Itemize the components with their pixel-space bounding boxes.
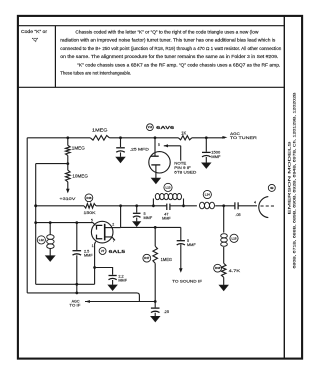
svg-text:4B: 4B bbox=[270, 186, 274, 190]
svg-text:10MEG: 10MEG bbox=[72, 174, 88, 179]
ground for .25MFD bbox=[116, 157, 125, 162]
junction dot inner bottom crossing bbox=[75, 283, 78, 286]
svg-text:MMF: MMF bbox=[84, 253, 93, 257]
capacitor .25MFD bbox=[116, 138, 149, 157]
svg-text:R48: R48 bbox=[215, 266, 221, 270]
capacitor 2.2MMF bbox=[95, 268, 128, 285]
svg-text:TO TUNER: TO TUNER bbox=[230, 135, 257, 140]
circled ref L13 bbox=[164, 183, 172, 191]
svg-text:Chassis coded with the letter: Chassis coded with the letter “K” or “Q”… bbox=[75, 30, 259, 35]
capacitor 1500MMF bbox=[202, 138, 221, 163]
ground for 5MMF row B bbox=[133, 222, 141, 227]
note text bbox=[174, 161, 196, 175]
tube 6AV6 plate bbox=[151, 155, 159, 157]
svg-text:V12: V12 bbox=[148, 126, 153, 129]
AGC TO TUNER arrow bbox=[222, 131, 257, 140]
dashed grid line (next stage) bbox=[261, 205, 277, 207]
wire bottom return bbox=[27, 293, 139, 302]
resistor 10MEG bbox=[66, 164, 88, 182]
wire mid-left vertical bbox=[35, 164, 37, 285]
circled ref L15 bbox=[230, 234, 238, 242]
svg-text:Code “K” or: Code “K” or bbox=[21, 29, 48, 34]
wire row B segment to tank bbox=[96, 205, 166, 207]
tube 6AL5 plate 2 bbox=[97, 235, 103, 239]
junction dot 5MMF tap bbox=[135, 204, 138, 207]
svg-text:5: 5 bbox=[91, 218, 93, 222]
tube 6AV6 diode plate lead bbox=[155, 138, 160, 156]
circled ref L14 bbox=[203, 190, 211, 198]
svg-text:1K: 1K bbox=[181, 131, 186, 136]
junction dot .25MFD tap bbox=[119, 136, 122, 139]
wire row B left segment bbox=[36, 205, 84, 207]
svg-text:.25: .25 bbox=[164, 309, 169, 314]
junction dot 1500MMF tap bbox=[205, 136, 208, 139]
svg-text:2: 2 bbox=[112, 223, 114, 227]
resistor 4.7K bbox=[221, 263, 240, 277]
svg-text:L15: L15 bbox=[232, 236, 237, 240]
wire row B tank to L14 bbox=[170, 205, 197, 207]
junction dot 6AV6 grid tap bbox=[154, 136, 157, 139]
svg-text:TO SOUND IF: TO SOUND IF bbox=[172, 279, 203, 284]
coil L15 bbox=[221, 206, 228, 263]
junction dot L12 top bbox=[49, 221, 52, 224]
svg-text:+310V: +310V bbox=[59, 196, 75, 201]
ground for 2.2MMF bbox=[108, 285, 117, 290]
svg-text:“Q”: “Q” bbox=[32, 37, 39, 42]
svg-text:L14: L14 bbox=[205, 193, 210, 197]
wire to next stage grid bbox=[239, 200, 258, 205]
svg-text:R46: R46 bbox=[86, 196, 92, 200]
capacitor 5MMF sound takeoff bbox=[177, 227, 197, 268]
capacitor .25 (AGC filter) bbox=[151, 308, 169, 316]
resistor 1MEG (horizontal, top row) bbox=[90, 127, 109, 140]
svg-text:MMF: MMF bbox=[162, 216, 171, 220]
circled ref R46 bbox=[85, 194, 93, 202]
rotated model list (outer) bbox=[291, 92, 296, 268]
svg-text:R47: R47 bbox=[144, 256, 150, 260]
tube V7 6AL5 label bbox=[99, 248, 125, 255]
svg-text:.05: .05 bbox=[235, 213, 240, 217]
wire junction horizontal bbox=[36, 163, 68, 165]
svg-text:1MEG: 1MEG bbox=[161, 257, 173, 262]
svg-text:.25 MFD: .25 MFD bbox=[130, 146, 149, 151]
svg-text:MMF: MMF bbox=[144, 216, 153, 220]
rotated EMERSON MODELS (inner) bbox=[286, 141, 291, 215]
coil L13 (tank) bbox=[153, 194, 183, 206]
wire top row right segment to AGC arrow bbox=[192, 137, 225, 139]
svg-text:1: 1 bbox=[92, 244, 94, 248]
svg-text:680B, 671B, 688B, 689B, 690B,: 680B, 671B, 688B, 689B, 690B, 692B, 694B… bbox=[291, 92, 296, 268]
junction dot top of 1MEG chain bbox=[66, 136, 69, 139]
junction dot 1MEG AGC tap bbox=[154, 226, 157, 229]
circled ref R48 bbox=[214, 264, 222, 272]
junction dot tank right bbox=[182, 204, 185, 207]
junction dot tank left bbox=[152, 204, 155, 207]
svg-text:“K” code chassis uses a 6BK7 a: “K” code chassis uses a 6BK7 as the RF a… bbox=[77, 62, 280, 67]
capacitor 2.5MMF bbox=[73, 223, 94, 293]
junction dot AGC node bbox=[154, 300, 157, 303]
tube 6AV6 cathode bbox=[151, 165, 160, 178]
capacitor 5MMF (row B) bbox=[133, 206, 153, 222]
wire 1MEG to junction bbox=[67, 155, 69, 163]
svg-text:6AL5: 6AL5 bbox=[109, 249, 126, 255]
tube 6AL5 envelope bbox=[91, 221, 113, 243]
wire 1MEG down to AGC node bbox=[154, 263, 156, 307]
wire row B L14 to cap bbox=[215, 205, 234, 207]
coil L12 bbox=[47, 223, 54, 256]
ground for L12 bbox=[46, 256, 55, 261]
svg-text:150K: 150K bbox=[84, 210, 96, 215]
svg-text:These tubes are not interchang: These tubes are not interchangeable. bbox=[60, 71, 131, 76]
resistor 1K bbox=[178, 131, 191, 140]
svg-text:1MEG: 1MEG bbox=[92, 127, 108, 132]
code box label bbox=[21, 29, 48, 42]
wire top row left segment bbox=[27, 137, 90, 139]
junction dot row B mid-left bbox=[34, 204, 37, 207]
svg-text:MMF: MMF bbox=[118, 279, 127, 283]
svg-text:radiation with an improved noi: radiation with an improved noise factor)… bbox=[60, 38, 276, 43]
svg-text:L12: L12 bbox=[39, 238, 44, 242]
junction dot between 1MEG and 10MEG bbox=[66, 162, 69, 165]
wire detector input row bbox=[36, 222, 93, 224]
junction dot L15 drop bbox=[222, 204, 225, 207]
wire row C bbox=[121, 226, 181, 228]
tube 6AL5 plate 1 bbox=[97, 225, 103, 229]
AGC TO IF arrow line bbox=[69, 298, 155, 307]
note arrow bbox=[164, 144, 181, 160]
svg-text:MMF: MMF bbox=[211, 154, 221, 159]
B+ 310V feed arrow bbox=[59, 182, 75, 201]
svg-text:6AV6: 6AV6 bbox=[156, 125, 174, 131]
coil L14 bbox=[200, 202, 215, 209]
text box bottom rule bbox=[18, 86, 284, 88]
svg-text:connected to the B+ 250 volt p: connected to the B+ 250 volt point (junc… bbox=[60, 46, 282, 51]
top band rule bbox=[18, 25, 284, 27]
tube 6AL5 cathode bar bbox=[104, 224, 106, 241]
circled ref L12 bbox=[37, 236, 45, 244]
ground for .25 AGC bbox=[151, 316, 160, 321]
svg-text:EMERSON MODELS: EMERSON MODELS bbox=[286, 141, 291, 215]
svg-text:5: 5 bbox=[158, 143, 160, 147]
svg-text:7: 7 bbox=[113, 239, 115, 243]
wire top row middle segment bbox=[109, 137, 178, 139]
junction dot pin1 branch bbox=[93, 266, 96, 269]
wire inner bottom bbox=[36, 283, 95, 285]
svg-text:TO IF: TO IF bbox=[69, 303, 81, 308]
junction dot pin2 drop bbox=[119, 204, 122, 207]
svg-text:MMF: MMF bbox=[187, 243, 196, 247]
ground for 1500MMF bbox=[202, 163, 211, 168]
tube 6AL5 pin7 lead bbox=[106, 237, 116, 243]
junction dot row B left bbox=[34, 204, 37, 207]
TO SOUND IF arrow bbox=[172, 268, 203, 283]
wire left outer vertical bbox=[26, 138, 28, 293]
svg-text:V7: V7 bbox=[101, 249, 105, 253]
right column divider line bbox=[283, 16, 285, 359]
ground for 4.7K bbox=[219, 285, 228, 290]
circled ref R47 bbox=[143, 254, 151, 262]
svg-text:4: 4 bbox=[254, 200, 256, 204]
junction dot mid-left row crossing bbox=[34, 221, 37, 224]
junction dot bottom 2.5MMF bbox=[75, 292, 78, 295]
tube 6AV6 envelope bbox=[149, 152, 170, 173]
ground for 6AV6 cathode bbox=[152, 178, 161, 183]
resistor 1MEG (AGC) bbox=[153, 227, 172, 263]
tube 6AL5 pin1 lead bbox=[92, 242, 96, 285]
svg-text:6T8 USED: 6T8 USED bbox=[174, 169, 196, 174]
resistor 150K bbox=[84, 204, 96, 215]
partial tube envelope (next stage) bbox=[259, 197, 269, 218]
code box divider bbox=[54, 26, 56, 88]
tube 6AL5 pin2 lead bbox=[106, 223, 121, 228]
resistor 1MEG (vertical) bbox=[66, 138, 85, 156]
svg-text:1MEG: 1MEG bbox=[72, 146, 85, 151]
circled ref next stage tube bbox=[268, 184, 275, 191]
junction dot 2.5MMF top bbox=[75, 221, 78, 224]
wire pin2 vertical bbox=[120, 206, 122, 228]
tube 6AL5 pin5 lead bbox=[91, 218, 96, 225]
wire 4.7K to ground bbox=[223, 277, 225, 285]
svg-text:4.7K: 4.7K bbox=[229, 268, 241, 273]
production change paragraph text bbox=[60, 30, 282, 76]
svg-text:on the same. The alignment p: on the same. The alignment procedure for… bbox=[60, 54, 278, 59]
tube V12 6AV6 label bbox=[147, 124, 175, 131]
capacitor 47MMF (series in tank) bbox=[162, 204, 171, 221]
capacitor .05 (series) bbox=[235, 202, 241, 217]
svg-text:L13: L13 bbox=[166, 185, 171, 189]
